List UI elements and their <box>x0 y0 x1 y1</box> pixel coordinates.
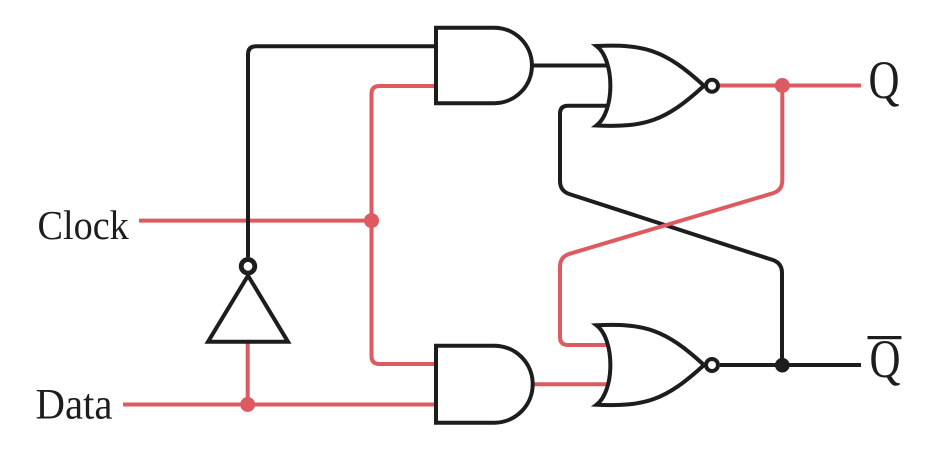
wire: Data input line <box>123 403 444 407</box>
node: clock junction <box>364 213 379 228</box>
node: Q junction <box>775 78 790 93</box>
wire: AND2 output to NOR2 lower input <box>532 382 614 386</box>
wire: Q feedback from Q junction down and across to NOR2 upper input <box>560 86 782 346</box>
wire: NOR1 output line to Q <box>719 84 862 88</box>
svg-text:Q: Q <box>869 50 900 110</box>
wire: Qbar feedback from NOR2 output junction up and across to NOR1 lower input <box>560 106 782 365</box>
NOR gate U5 (bottom) body <box>597 325 705 405</box>
svg-text:Data: Data <box>36 382 113 429</box>
wire: Clock input line <box>139 219 372 223</box>
AND gate U3 (bottom) <box>436 346 533 423</box>
AND gate U2 (top) <box>436 28 532 104</box>
svg-text:Clock: Clock <box>38 202 130 248</box>
inverter U1 (triangle) <box>208 276 288 342</box>
label: Qbar overline <box>868 336 902 339</box>
wire: inverter output up and right to AND1 upper input <box>248 46 444 257</box>
NOR gate U5 bubble <box>706 359 718 371</box>
wire: data to inverter input <box>246 342 250 405</box>
wire: clock branch down to AND2 upper input <box>372 221 445 364</box>
wire: NOR2 output line to Qbar <box>720 363 861 367</box>
wire: AND1 output to NOR1 upper input <box>532 64 614 68</box>
NOR gate U4 (top) body <box>597 46 705 126</box>
wire: clock branch up to AND1 lower input <box>372 86 445 221</box>
node: data junction <box>240 397 255 412</box>
inverter U1 bubble <box>241 260 255 274</box>
NOR gate U4 bubble <box>706 80 718 92</box>
node: Qbar junction <box>775 358 790 373</box>
